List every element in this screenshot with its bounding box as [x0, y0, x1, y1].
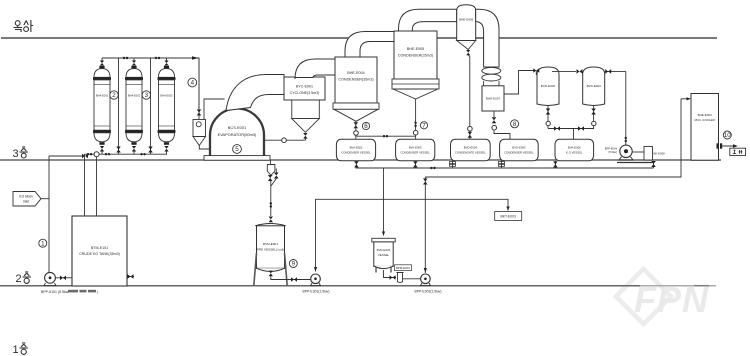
- svg-text:BVD-E006: BVD-E006: [377, 248, 391, 252]
- wire separator to drum3: [468, 55, 470, 56]
- svg-text:BPP-E004: BPP-E004: [605, 147, 618, 151]
- label 1F: [13, 343, 28, 356]
- svg-text:BVD-E004: BVD-E004: [464, 146, 478, 150]
- evaporator dome BCS-E001: [210, 109, 264, 159]
- svg-text:BK-E008: BK-E008: [654, 152, 666, 156]
- svg-text:BVA-E003: BVA-E003: [409, 146, 422, 150]
- wire line B up to cooler: [681, 98, 687, 100]
- pre vessel BVM-E001: [254, 224, 287, 286]
- valve under cyclone cone: [303, 133, 307, 139]
- valve on tank2 top: [577, 69, 584, 75]
- valve dots on manifold 3: [140, 153, 145, 155]
- floor line roof (oksang): [1, 37, 717, 39]
- valve dots on manifold 2: [105, 153, 110, 155]
- scrubber box BHD-E007: [482, 86, 504, 111]
- circle fitting: [354, 131, 359, 136]
- valve tank2 right: [605, 70, 626, 72]
- svg-text:PRE VESSEL(1m3): PRE VESSEL(1m3): [257, 248, 284, 252]
- pipe line C y199: [316, 199, 509, 271]
- wire evaporator bottom outlet: [270, 160, 272, 164]
- arrow on header: [192, 56, 199, 59]
- svg-text:CYCLONE(3.5m3): CYCLONE(3.5m3): [290, 91, 320, 95]
- pot strainer: [397, 273, 404, 283]
- svg-text:5: 5: [235, 146, 239, 153]
- bypass line 2: [150, 58, 152, 154]
- strainer BK-E008: [644, 147, 665, 161]
- duct condenser1 to condenser2: [345, 32, 394, 58]
- valve under pre vessel: [269, 271, 273, 277]
- drum BVD-E004 condensate vessel: [451, 139, 491, 161]
- bottom manifold pipe y154: [85, 153, 168, 155]
- condenser BHE-E004: [333, 57, 379, 121]
- svg-text:BPP-6101 (5.5kw,: BPP-6101 (5.5kw,: [41, 290, 69, 294]
- wire pentagon to riser: [41, 198, 49, 200]
- svg-text:BHA-E001: BHA-E001: [96, 94, 109, 98]
- tank2 bottom line: [591, 106, 596, 129]
- svg-text:1: 1: [13, 344, 19, 356]
- floor line 3F: [0, 159, 721, 161]
- line A right end riser: [651, 161, 656, 168]
- circle fitting on manifold: [94, 152, 99, 157]
- valve dots on manifold 1: [87, 153, 92, 155]
- label box BPM-E001: [395, 265, 412, 271]
- circled 6: [362, 122, 369, 130]
- duct condenser2 to separator: [399, 9, 457, 31]
- drop drum3 flanged: [450, 161, 456, 168]
- label roof floor (oksang): [14, 20, 34, 32]
- wire pump discharge to tank: [55, 277, 72, 279]
- svg-text:BVD-E003: BVD-E003: [587, 84, 602, 88]
- pentagon flag EO inlet: [13, 192, 41, 207]
- duct separator to scrubber box: [476, 9, 499, 67]
- svg-text:(5.5kw): (5.5kw): [608, 150, 617, 154]
- svg-text:CONDENSER VESSEL: CONDENSER VESSEL: [400, 151, 430, 155]
- wire riser to tank top: [84, 154, 86, 216]
- svg-text:Inlet: Inlet: [23, 200, 29, 204]
- wire evaporator side outlet: [264, 139, 305, 141]
- tank1 bottom line: [546, 106, 551, 129]
- svg-text:2: 2: [112, 92, 116, 99]
- circled 2: [110, 91, 118, 99]
- svg-text:BKT-E003: BKT-E003: [500, 215, 516, 219]
- svg-text:CONDENSATE VESSEL: CONDENSATE VESSEL: [455, 151, 486, 155]
- wire between drum1 drum2 tops: [356, 135, 415, 137]
- cyclone box BYC-E001: [284, 77, 325, 100]
- wire box to tank1 valve: [504, 71, 534, 95]
- wire drop to pump BPP-E002: [424, 177, 426, 273]
- drum BVA-E003 condenser vessel: [396, 139, 435, 161]
- valve above small cyclone: [197, 110, 202, 116]
- circled 5: [233, 145, 242, 154]
- wire cyclone top right to elbow junction: [204, 99, 225, 120]
- svg-text:7: 7: [422, 123, 426, 130]
- svg-text:2: 2: [16, 273, 22, 285]
- drop drum1: [354, 161, 359, 168]
- svg-text:MCC COOLER: MCC COOLER: [695, 118, 716, 122]
- wire riser to pump 3F: [625, 71, 627, 145]
- small vessel BVD-E006: [372, 238, 395, 272]
- drop line A to small vessel: [383, 168, 385, 236]
- separator BHE-E006: [457, 5, 476, 50]
- cooler outlet arrow: [717, 143, 738, 148]
- svg-text:3: 3: [13, 148, 19, 160]
- svg-text:EVAPORATOR(50m3): EVAPORATOR(50m3): [218, 132, 257, 137]
- valve on header 1: [123, 57, 128, 59]
- svg-text:BPP-E002(1.5kw): BPP-E002(1.5kw): [415, 290, 442, 294]
- drum BVA-E006 KO vessel: [555, 139, 594, 161]
- circled 10: [723, 131, 731, 139]
- wire cyclone outlet to evaporator: [199, 146, 212, 157]
- svg-text:): ): [97, 290, 98, 294]
- svg-text:CONDENSER VESSEL: CONDENSER VESSEL: [504, 151, 534, 155]
- svg-text:4: 4: [191, 80, 195, 87]
- expansion joint 2: [482, 74, 501, 81]
- valve under box: [492, 117, 497, 123]
- wire second drop to tank: [96, 156, 98, 216]
- label box BKT-E003: [495, 212, 522, 221]
- circled 3: [142, 91, 150, 99]
- duct joint to box: [484, 81, 499, 86]
- svg-text:BTM-E101: BTM-E101: [91, 246, 108, 250]
- valve under condenser1: [354, 122, 359, 128]
- wire pot to pump BPP-E002: [403, 278, 421, 280]
- svg-text:CONDENSER(35m3): CONDENSER(35m3): [338, 78, 373, 82]
- svg-text:6: 6: [364, 123, 368, 130]
- bypass valve: [271, 169, 279, 187]
- wire down to pre vessel: [270, 181, 272, 216]
- svg-text:BVD-E005: BVD-E005: [512, 146, 526, 150]
- circle fitting: [413, 130, 418, 135]
- tank BVD-E002: [537, 67, 559, 106]
- svg-text:8: 8: [513, 121, 517, 128]
- wire riser x49 down to pump: [48, 156, 50, 273]
- svg-text:9: 9: [292, 261, 296, 268]
- valve on tank1 top: [533, 68, 539, 75]
- small label box right: [730, 148, 746, 155]
- svg-text:VESSEL: VESSEL: [378, 253, 390, 257]
- wire drop to small cyclone: [198, 58, 200, 120]
- cooler BHE-E009: [691, 94, 719, 161]
- tank BVD-E003: [583, 67, 605, 106]
- svg-text:BVD-E002: BVD-E002: [541, 84, 556, 88]
- svg-text:BHE-E005: BHE-E005: [407, 47, 424, 51]
- drop drum5: [553, 161, 558, 168]
- label 2F: [16, 272, 31, 285]
- svg-text:BHD-E007: BHD-E007: [486, 97, 501, 101]
- column 1 BHA-E001: [93, 58, 111, 154]
- duct elbow cyclone to condenser1: [295, 59, 335, 79]
- pump BPP-E301: [311, 274, 321, 286]
- wire pre vessel to pump BPP-E301: [271, 276, 311, 279]
- wire vessel bottom to pot: [384, 270, 397, 278]
- small cyclone feeder BCY-E001: [193, 120, 206, 146]
- svg-text:BVA-E002: BVA-E002: [350, 146, 363, 150]
- circled 9: [289, 260, 297, 268]
- valve under separator: [466, 50, 470, 55]
- drop drum4 flanged: [499, 161, 505, 168]
- svg-text:BCS-E001: BCS-E001: [228, 125, 246, 130]
- floor line 2F: [0, 285, 640, 287]
- svg-text:CONDENSER(35m3): CONDENSER(35m3): [398, 54, 433, 58]
- pump BPP-6101: [44, 272, 56, 285]
- crude EO tank BTM-E101: [72, 216, 127, 286]
- column 2 BHA-E002: [125, 58, 143, 154]
- valve above pre vessel: [269, 217, 273, 223]
- svg-text:BHE-E004: BHE-E004: [347, 71, 364, 75]
- svg-text:K.O VESSEL: K.O VESSEL: [566, 151, 583, 155]
- label 3F: [13, 147, 28, 160]
- svg-text:BPP-E301(1.5kw): BPP-E301(1.5kw): [303, 290, 330, 294]
- pump BPP-E004: [619, 145, 633, 160]
- valve: [468, 132, 473, 138]
- svg-text:1: 1: [41, 240, 45, 247]
- svg-text:CRUDE EO TANK(35m3): CRUDE EO TANK(35m3): [79, 252, 120, 256]
- pipe line B y177: [425, 99, 681, 177]
- expansion joint 1: [482, 67, 501, 74]
- svg-text:BPM-E001: BPM-E001: [396, 266, 410, 270]
- circled 1: [39, 239, 47, 247]
- column 3 BHA-E003: [158, 58, 176, 154]
- svg-text:EO Main: EO Main: [19, 195, 32, 199]
- bypass line 1: [118, 58, 120, 154]
- cyclone lower vessel: [292, 100, 320, 132]
- circled 7: [420, 122, 427, 130]
- valve under hopper: [268, 175, 273, 181]
- svg-text:BVM-E001: BVM-E001: [263, 242, 278, 246]
- wire pump to strainer: [632, 151, 644, 153]
- manifold to KO drum: [548, 129, 594, 140]
- watermark FPN: [616, 269, 709, 324]
- duct elbow evaporator to cyclone: [226, 75, 284, 111]
- svg-text:BHE-E009: BHE-E009: [698, 113, 713, 117]
- svg-text:10: 10: [724, 132, 731, 139]
- valve dots under condenser2: [415, 99, 417, 139]
- pump BPP-E002: [421, 274, 431, 286]
- drop drum2: [413, 161, 418, 168]
- svg-text:CONDENSER VESSEL: CONDENSER VESSEL: [341, 151, 371, 155]
- svg-text:BHA-E002: BHA-E002: [128, 94, 141, 98]
- pipe line A y168: [356, 167, 654, 169]
- wire box bottom to drum4: [494, 111, 510, 139]
- wire horizontal y156: [49, 155, 85, 157]
- circle fitting on outlet: [282, 138, 287, 143]
- drum BVD-E005 condenser vessel: [500, 139, 539, 161]
- valve at tank riser junction: [82, 154, 88, 159]
- wire tank1 to tank2: [552, 70, 576, 72]
- circle fitting: [492, 125, 497, 130]
- valve on header 2: [155, 57, 160, 59]
- tank drain valve: [127, 276, 134, 278]
- top header pipe: [102, 58, 199, 110]
- evaporator base: [204, 156, 270, 161]
- svg-text:BYC-E001: BYC-E001: [296, 85, 313, 89]
- circled 8: [511, 120, 519, 128]
- svg-text:BHA-E003: BHA-E003: [160, 94, 173, 98]
- drum BVA-E002 condenser vessel: [336, 139, 375, 161]
- pump base line 3F: [617, 162, 654, 164]
- circled 4: [188, 78, 197, 87]
- condenser BHE-E005: [392, 31, 439, 99]
- svg-text:BHE-E006: BHE-E006: [459, 18, 474, 22]
- svg-text:BVA-E006: BVA-E006: [568, 146, 581, 150]
- svg-text:3: 3: [145, 92, 149, 99]
- hopper: [267, 165, 275, 176]
- circle fitting: [468, 126, 473, 131]
